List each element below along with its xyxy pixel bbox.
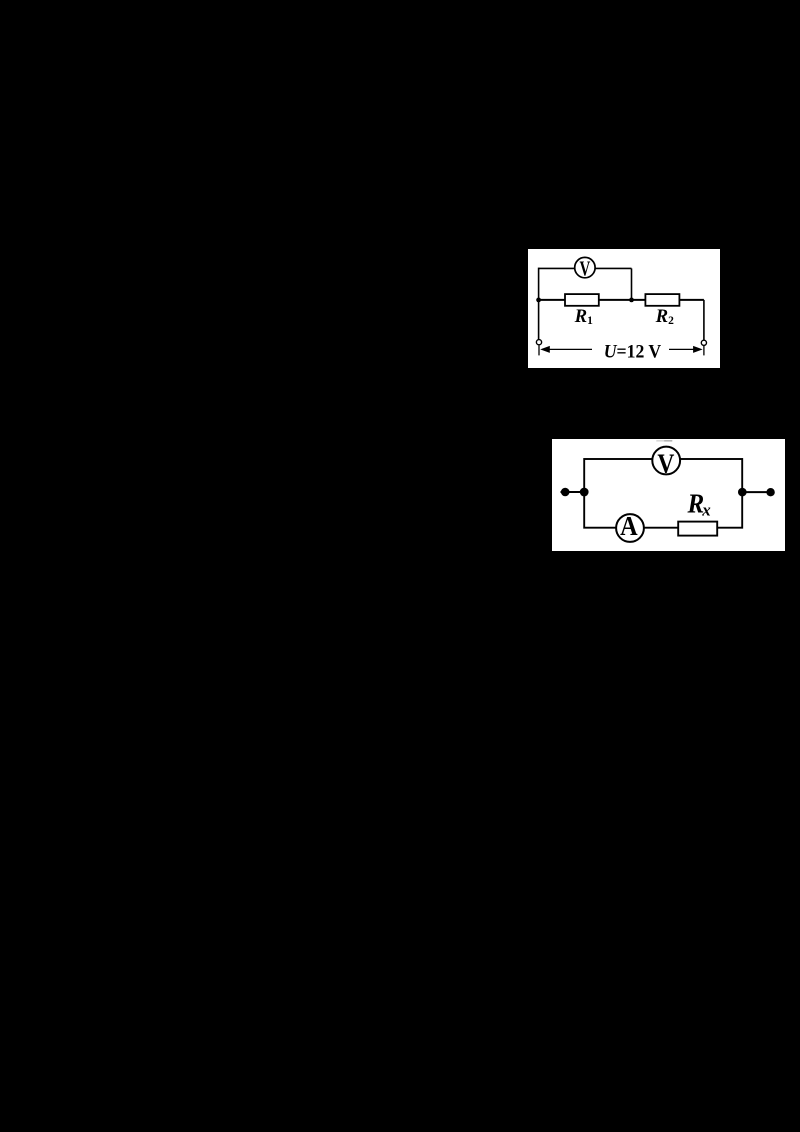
voltmeter V — [575, 257, 595, 281]
resistor Rx — [678, 522, 717, 536]
wire top loop horizontal — [539, 267, 632, 269]
figure panel 1: series circuit with voltmeter across R1 — [528, 249, 720, 368]
ammeter A — [616, 511, 644, 542]
terminal open circle left — [536, 340, 541, 345]
terminal dot far left — [561, 488, 570, 497]
node junction left — [536, 298, 541, 303]
dimension line left with arrowhead — [540, 346, 592, 353]
wire rectangle loop — [584, 459, 742, 528]
tick below left terminal — [538, 345, 540, 355]
voltmeter V — [652, 447, 680, 479]
dimension line right with arrowhead — [669, 346, 703, 353]
figure panel 2: ammeter-voltmeter measurement of Rx — [552, 439, 785, 551]
svg-text:A: A — [620, 511, 638, 541]
svg-text:R1: R1 — [574, 306, 593, 327]
terminal open circle right — [701, 340, 706, 345]
wire right inner vertical — [631, 268, 633, 300]
resistor R2 — [645, 294, 679, 306]
svg-text:U=12 V: U=12 V — [604, 342, 662, 363]
wire left stub — [561, 491, 585, 493]
wire right stub — [742, 491, 770, 493]
resistor R1 — [565, 294, 599, 306]
tick below right terminal — [703, 346, 705, 355]
svg-text:V: V — [580, 257, 591, 281]
node junction mid — [629, 298, 634, 303]
wire main horizontal — [539, 299, 704, 301]
svg-text:R2: R2 — [655, 306, 674, 327]
node junction right — [738, 488, 747, 497]
wire left vertical — [538, 268, 540, 340]
terminal dot far right — [766, 488, 774, 496]
svg-text:V: V — [657, 447, 674, 478]
node junction left — [580, 488, 589, 497]
svg-text:x: x — [701, 500, 711, 519]
scan artifact grey mark — [656, 440, 664, 442]
wire right outer vertical — [703, 300, 705, 340]
